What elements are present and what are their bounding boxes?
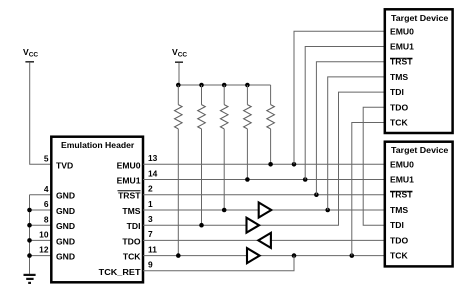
- wire target1 TDO to target2 TDI: [363, 107, 385, 225]
- wire TMS row (after buffer): [271, 209, 385, 211]
- svg-text:9: 9: [148, 260, 153, 270]
- buffer U3 (TDI): [247, 218, 260, 233]
- junction pin6: [27, 208, 32, 213]
- wire VCC mid feed: [178, 63, 180, 85]
- svg-text:TMS: TMS: [390, 72, 408, 82]
- svg-text:TMS: TMS: [122, 206, 140, 216]
- svg-text:GND: GND: [56, 236, 75, 246]
- power symbol VCC mid: [172, 47, 187, 62]
- svg-text:TDO: TDO: [122, 236, 140, 246]
- wire target1 TCK: [352, 123, 385, 256]
- svg-text:6: 6: [44, 199, 49, 209]
- wire target1 EMU1: [305, 47, 385, 180]
- svg-text:1: 1: [148, 199, 153, 209]
- svg-text:Emulation Header: Emulation Header: [61, 140, 135, 150]
- svg-text:GND: GND: [56, 221, 75, 231]
- wire GND pin12 stub: [30, 255, 52, 257]
- wire pullup rail: [178, 84, 270, 86]
- junction rail 4: [245, 83, 250, 88]
- node GND bus left: [29, 195, 31, 274]
- junction EMU1/R4: [245, 177, 250, 182]
- power symbol VCC left: [23, 47, 38, 62]
- TRST overline (target2): [390, 190, 413, 192]
- svg-text:2: 2: [148, 184, 153, 194]
- wire TCK_RET row: [143, 256, 294, 271]
- junction pin10: [27, 238, 32, 243]
- svg-text:EMU1: EMU1: [390, 175, 414, 185]
- svg-text:10: 10: [39, 230, 49, 240]
- svg-text:TDI: TDI: [127, 221, 141, 231]
- resistor R3 (pullup TMS): [223, 85, 225, 105]
- svg-text:Target Device: Target Device: [391, 13, 448, 23]
- svg-text:GND: GND: [56, 191, 75, 201]
- wire VCC-left to TVD pin5: [30, 63, 52, 165]
- svg-text:EMU1: EMU1: [117, 176, 141, 186]
- svg-text:GND: GND: [56, 252, 75, 262]
- svg-text:13: 13: [148, 153, 158, 163]
- svg-text:3: 3: [148, 214, 153, 224]
- junction pin12: [27, 253, 32, 258]
- svg-text:EMU0: EMU0: [117, 160, 141, 170]
- resistor R2 (pullup TDI): [201, 85, 203, 105]
- wire GND pin10 stub: [30, 239, 52, 241]
- wire TRST row: [143, 194, 385, 196]
- wire EMU1 row: [143, 179, 385, 181]
- svg-text:TVD: TVD: [56, 160, 73, 170]
- junction TMS/target1: [325, 208, 330, 213]
- junction EMU1/target1: [303, 177, 308, 182]
- svg-text:7: 7: [148, 229, 153, 239]
- svg-text:5: 5: [44, 153, 49, 163]
- wire target1 EMU0: [294, 31, 385, 164]
- junction rail 1: [176, 83, 181, 88]
- wire target1 TRST: [316, 62, 384, 195]
- Target Device box U7 (bottom): [385, 142, 453, 267]
- junction TMS/R3: [222, 208, 227, 213]
- svg-text:14: 14: [148, 168, 158, 178]
- ground: [24, 275, 36, 283]
- wire TDI row (before buffer): [143, 224, 247, 226]
- svg-text:4: 4: [44, 184, 49, 194]
- svg-text:VCC: VCC: [172, 47, 187, 59]
- svg-text:TRST: TRST: [118, 191, 141, 201]
- svg-text:EMU0: EMU0: [390, 159, 414, 169]
- resistor R1 (pullup TCK): [177, 85, 179, 105]
- wire TMS row (before buffer): [143, 209, 259, 211]
- svg-text:VCC: VCC: [23, 47, 38, 59]
- svg-text:TDI: TDI: [390, 87, 404, 97]
- TRST overline (header): [118, 190, 141, 192]
- svg-text:EMU1: EMU1: [390, 42, 414, 52]
- wire TCK row (after buffer): [259, 255, 385, 257]
- svg-text:11: 11: [148, 244, 157, 254]
- junction rail 2: [199, 83, 204, 88]
- resistor R5 (pullup EMU0): [270, 85, 272, 105]
- wire target1 TMS: [328, 77, 385, 210]
- wire TDI row buffered, up to target1 TDI: [259, 92, 385, 225]
- svg-text:TDO: TDO: [390, 235, 408, 245]
- TRST overline (target1): [390, 57, 413, 59]
- wire EMU0 row: [143, 163, 385, 165]
- resistor R4 (pullup EMU1): [246, 85, 248, 105]
- svg-text:12: 12: [39, 245, 49, 255]
- svg-text:TMS: TMS: [390, 205, 408, 215]
- buffer U2 (TMS): [259, 203, 272, 218]
- wire TDO row (right of buffer to target2): [271, 239, 385, 241]
- svg-text:TCK: TCK: [390, 251, 408, 261]
- junction TCK/TCK_RET: [292, 253, 297, 258]
- wire GND pin4 stub: [30, 194, 52, 196]
- buffer U4 (TDO, input): [258, 233, 271, 248]
- svg-text:TDO: TDO: [390, 102, 408, 112]
- svg-text:TDI: TDI: [390, 220, 404, 230]
- svg-text:TCK_RET: TCK_RET: [99, 267, 142, 277]
- svg-text:TCK: TCK: [390, 118, 408, 128]
- junction EMU0/R5: [268, 162, 273, 167]
- wire TDO row (left of buffer): [143, 239, 259, 241]
- svg-text:GND: GND: [56, 206, 75, 216]
- junction TRST/target1: [314, 192, 319, 197]
- junction rail 3: [222, 83, 227, 88]
- svg-text:Target Device: Target Device: [391, 145, 448, 155]
- junction TDI/R2: [199, 223, 204, 228]
- buffer U5 (TCK): [247, 248, 260, 263]
- Target Device box U6 (top): [385, 9, 453, 133]
- wire TCK row (before buffer): [143, 255, 247, 257]
- junction pin8: [27, 223, 32, 228]
- svg-text:EMU0: EMU0: [390, 26, 414, 36]
- junction TCK/R1: [176, 253, 181, 258]
- wire GND pin6 stub: [30, 209, 52, 211]
- wire GND pin8 stub: [30, 224, 52, 226]
- Emulation Header box U1: [51, 137, 143, 283]
- junction EMU0/target1: [292, 162, 297, 167]
- svg-text:8: 8: [44, 214, 49, 224]
- junction TCK/target1: [350, 253, 355, 258]
- svg-text:TCK: TCK: [123, 252, 141, 262]
